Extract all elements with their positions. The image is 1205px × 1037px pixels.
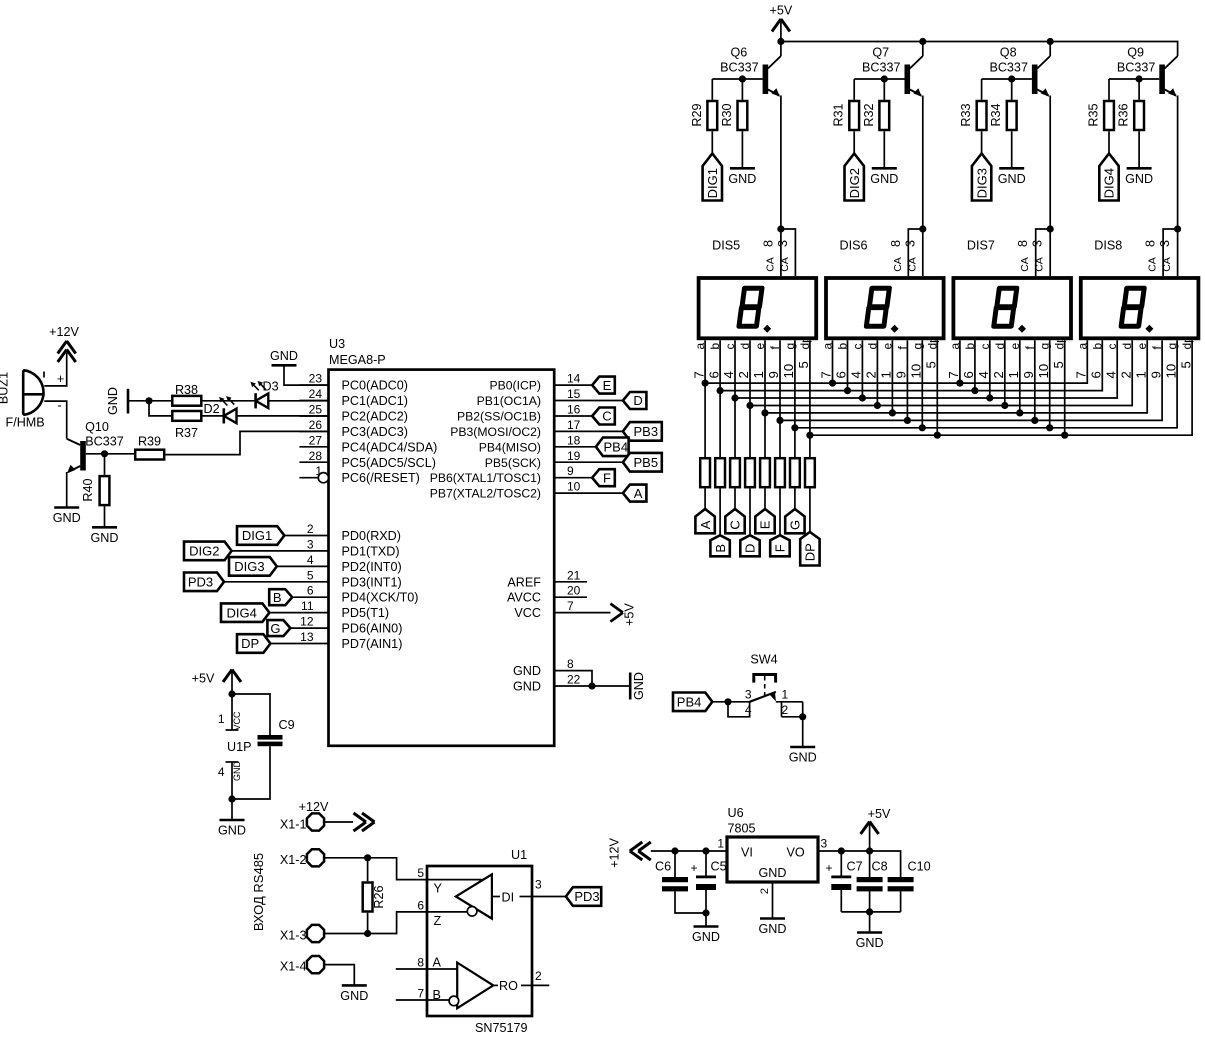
svg-text:7805: 7805: [728, 822, 756, 836]
svg-text:9: 9: [1148, 371, 1163, 378]
svg-text:CA: CA: [906, 257, 918, 272]
wire DIS7 pin drop seg a: [959, 340, 961, 383]
svg-text:GND: GND: [340, 989, 368, 1003]
svg-text:1: 1: [717, 837, 724, 851]
svg-text:X1-1: X1-1: [280, 818, 307, 832]
ground (Q10 emitter): [53, 508, 81, 526]
flag E (net E): [592, 377, 615, 394]
wire DIS6 pin drop seg g: [921, 340, 923, 428]
connector pad X1-3: [280, 925, 324, 943]
svg-text:C5: C5: [711, 860, 727, 874]
wire buzzer - to Q10 collector: [44, 401, 66, 439]
svg-text:15: 15: [567, 387, 581, 401]
svg-text:2: 2: [307, 522, 314, 536]
ground (X1-4): [340, 985, 368, 1003]
svg-text:24: 24: [309, 387, 323, 401]
wire Q7 collector to +5V rail: [922, 42, 924, 57]
svg-text:1: 1: [1006, 371, 1021, 378]
flag DP (net DP): [237, 634, 270, 653]
svg-text:3: 3: [903, 240, 917, 247]
junction VO/C7: [838, 847, 845, 854]
wire PD3 flag to U3 pin 5: [224, 581, 329, 583]
svg-text:CA: CA: [1161, 257, 1173, 272]
svg-text:13: 13: [300, 630, 314, 644]
pin 21 U3 (AREF stub): [554, 568, 587, 582]
flag E (segment net): [755, 509, 774, 533]
junction bus g / resistor column: [791, 424, 798, 431]
junction bus e / resistor column: [761, 409, 768, 416]
svg-text:A: A: [634, 486, 643, 501]
wire DIG1 flag to U3 pin 2: [284, 535, 328, 537]
junction +12V/C6: [671, 847, 678, 854]
capacitor C6: [655, 851, 688, 891]
wire R29 top lead: [711, 79, 713, 100]
svg-text:GND: GND: [632, 672, 646, 700]
wire resistor to F flag: [779, 489, 781, 536]
svg-text:GND: GND: [789, 751, 817, 765]
junction bus a / resistor column: [702, 380, 709, 387]
wire Q8 base: [982, 78, 1032, 80]
junction output caps ground: [866, 908, 873, 915]
resistor R37: [172, 411, 201, 440]
svg-text:PB4: PB4: [604, 440, 629, 455]
flag G (net G): [267, 620, 290, 636]
svg-text:G: G: [788, 520, 803, 530]
svg-text:DIG2: DIG2: [847, 168, 862, 198]
wire segment-f bus: [780, 340, 1162, 420]
transistor Q7 (BC337, NPN): [862, 46, 923, 97]
svg-text:DIG1: DIG1: [705, 168, 720, 198]
wire R30 top lead: [741, 79, 743, 100]
resistor R26 (termination): [363, 883, 386, 912]
wire Q6 base: [712, 78, 762, 80]
svg-text:DIG1: DIG1: [242, 528, 272, 543]
wire output caps ground bus: [841, 911, 900, 913]
flag G (segment net): [785, 509, 804, 533]
junction X1-3 / R26: [364, 930, 371, 937]
svg-text:2: 2: [782, 703, 789, 717]
wire DIS6 pin drop seg e: [891, 340, 893, 413]
svg-text:R36: R36: [1117, 103, 1131, 126]
flag D (net D): [623, 392, 647, 409]
svg-text:CA: CA: [764, 257, 776, 272]
capacitor C7 (polarized): [825, 851, 862, 912]
wire R32 top lead: [883, 79, 885, 100]
pin 8 U3 GND wire: [554, 657, 592, 686]
svg-text:9: 9: [894, 371, 909, 378]
pin 1 U3: [299, 464, 328, 483]
junction Q7 emitter / CA pins: [919, 225, 926, 232]
svg-text:DIG4: DIG4: [227, 605, 257, 620]
svg-text:1: 1: [879, 371, 894, 378]
svg-text:Q6: Q6: [730, 46, 747, 60]
svg-text:PB3(MOSI/OC2): PB3(MOSI/OC2): [450, 425, 541, 439]
wire U6 VO to output caps: [818, 851, 901, 877]
wire DIS7 pin drop seg c: [989, 340, 991, 398]
capacitor C5 (polarized): [690, 851, 726, 890]
flag PB4 (net PB4): [596, 438, 629, 457]
node +12V at X1-1: [354, 813, 375, 831]
junction bus f / DIS7: [1031, 417, 1038, 424]
wire Q9 base: [1109, 78, 1159, 80]
svg-text:MEGA8-P: MEGA8-P: [329, 353, 386, 367]
svg-text:5: 5: [1051, 361, 1066, 368]
wire segment-a bus: [705, 340, 1087, 383]
ground (Q8 base pulldown): [998, 168, 1026, 186]
svg-text:18: 18: [567, 433, 581, 447]
junction bus g / DIS7: [1046, 424, 1053, 431]
resistor R29: [690, 101, 717, 130]
wire R30 to ground: [741, 131, 743, 168]
svg-text:B: B: [273, 590, 282, 605]
svg-text:6: 6: [1089, 371, 1104, 378]
svg-text:+12V: +12V: [49, 325, 79, 339]
svg-text:VO: VO: [787, 846, 805, 860]
svg-text:RO: RO: [499, 979, 518, 993]
svg-text:PC6(/RESET): PC6(/RESET): [342, 471, 420, 485]
svg-text:U1P: U1P: [227, 740, 252, 754]
wire DP flag to U3 pin 13: [270, 643, 328, 645]
pin 2 U1 (RO stub): [532, 969, 549, 985]
node +5V (regulator output): [861, 807, 891, 851]
wire R32 to ground: [883, 131, 885, 168]
flag B (net B): [269, 589, 292, 605]
wire to ground: [869, 912, 871, 933]
wire Q6 emitter to DIS5 common anode: [780, 96, 782, 230]
wire U1P to ground: [231, 799, 233, 820]
flag DIG3 (net DIG3): [229, 557, 277, 576]
resistor (segment B current limit): [715, 458, 725, 487]
svg-text:7: 7: [417, 987, 424, 1001]
svg-text:PC3(ADC3): PC3(ADC3): [342, 425, 408, 439]
wire C6/C5 bottoms to ground: [675, 891, 706, 913]
wire DIS6 pin drop seg f: [906, 340, 908, 420]
flag DIG2 (digit drive net): [845, 154, 864, 201]
wire DIS5 pin drop seg f: [779, 340, 781, 420]
svg-text:10: 10: [1036, 364, 1051, 379]
junction +12V/C5: [702, 847, 709, 854]
svg-text:CA: CA: [892, 257, 904, 272]
wire R36 top lead: [1138, 79, 1140, 100]
wire R35 top lead: [1108, 79, 1110, 100]
svg-text:R35: R35: [1087, 103, 1101, 126]
wire resistor to C flag: [734, 489, 736, 510]
svg-text:2: 2: [736, 371, 751, 378]
svg-text:6: 6: [961, 371, 976, 378]
svg-text:26: 26: [309, 418, 323, 432]
resistor R32: [862, 101, 889, 130]
resistor R40: [81, 476, 109, 505]
svg-text:PC1(ADC1): PC1(ADC1): [342, 394, 408, 408]
resistor R31: [832, 101, 859, 130]
junction X1-2 / R26: [364, 854, 371, 861]
wire R33 top lead: [981, 79, 983, 100]
svg-text:14: 14: [567, 372, 581, 386]
svg-text:7: 7: [567, 599, 574, 613]
svg-text:D: D: [633, 393, 642, 408]
node +5V at VCC: [610, 603, 636, 626]
svg-text:11: 11: [301, 599, 314, 613]
junction bus c / DIS7: [986, 394, 993, 401]
svg-text:10: 10: [781, 364, 796, 379]
svg-text:3: 3: [1031, 240, 1045, 247]
wire bus to segment resistor 4: [749, 406, 751, 458]
capacitor C8: [857, 851, 888, 912]
svg-text:Q9: Q9: [1127, 46, 1144, 60]
svg-text:X1-3: X1-3: [280, 929, 307, 943]
wire R40 leads: [104, 454, 106, 475]
svg-text:DIS7: DIS7: [967, 239, 995, 253]
svg-text:R37: R37: [175, 426, 198, 440]
svg-text:23: 23: [309, 372, 323, 386]
ground (input caps): [692, 927, 720, 945]
junction PB4/SW4 pin4: [724, 698, 731, 705]
svg-text:BC337: BC337: [85, 435, 124, 449]
svg-text:VCC: VCC: [232, 711, 242, 731]
svg-text:21: 21: [567, 568, 581, 582]
svg-text:PD3: PD3: [574, 889, 599, 904]
wire SW4 to ground: [802, 717, 804, 747]
svg-text:PC4(ADC4/SDA): PC4(ADC4/SDA): [342, 440, 438, 454]
svg-text:+5V: +5V: [192, 672, 215, 686]
flag DIG1 (net DIG1): [237, 526, 284, 545]
svg-text:PD1(TXD): PD1(TXD): [342, 544, 400, 558]
flag DIG2 (net DIG2): [184, 542, 232, 561]
flag PB3 (net PB3): [623, 422, 662, 441]
svg-text:CA: CA: [779, 257, 791, 272]
pin 27 U3: [299, 433, 328, 447]
wire D2 anode to U3 pin 25 (PC2): [237, 415, 329, 417]
flag A (segment net): [695, 509, 714, 533]
svg-text:F/HMB: F/HMB: [6, 416, 45, 430]
svg-text:PB4(MISO): PB4(MISO): [479, 440, 541, 454]
seven-segment display DIS7: [946, 239, 1071, 379]
connector pad X1-1 (+12V input): [280, 800, 329, 832]
seven-segment display DIS6: [819, 239, 944, 379]
svg-text:5: 5: [796, 361, 811, 368]
svg-text:R31: R31: [832, 103, 846, 126]
wire R34 top lead: [1011, 79, 1013, 100]
junction bus c / DIS6: [859, 394, 866, 401]
svg-text:Q7: Q7: [872, 46, 889, 60]
svg-text:20: 20: [567, 584, 581, 598]
node +12V (regulator input): [608, 838, 651, 868]
wire U1 DI to PD3 flag: [532, 896, 566, 898]
wire bus to segment resistor 2: [719, 391, 721, 457]
wire SW4 pins 1/2 to ground: [776, 701, 803, 703]
svg-text:R32: R32: [862, 103, 876, 126]
resistor R30: [720, 101, 747, 130]
junction bus f / resistor column: [776, 417, 783, 424]
LED D3: [250, 380, 278, 409]
svg-text:8: 8: [1144, 240, 1158, 247]
svg-text:PD5(T1): PD5(T1): [342, 606, 390, 620]
wire U3 9 to F flag: [554, 477, 592, 479]
svg-text:6: 6: [834, 371, 849, 378]
svg-text:BC337: BC337: [720, 61, 759, 75]
wire Q10 base: [86, 453, 134, 455]
svg-text:DIS6: DIS6: [840, 239, 868, 253]
junction Q9 emitter / CA pins: [1174, 225, 1181, 232]
wire U3 14 to E flag: [554, 384, 592, 386]
svg-text:GND: GND: [232, 761, 242, 782]
wire resistor to A flag: [704, 489, 706, 510]
wire U6 GND to ground: [772, 882, 774, 919]
wire Q10 emitter to ground: [66, 472, 68, 508]
svg-text:2: 2: [991, 371, 1006, 378]
svg-text:GND: GND: [728, 172, 756, 186]
svg-text:PB3: PB3: [634, 424, 659, 439]
svg-text:PB2(SS/OC1B): PB2(SS/OC1B): [457, 410, 541, 424]
svg-text:BC337: BC337: [1117, 61, 1156, 75]
svg-text:4: 4: [307, 553, 314, 567]
wire Q7 emitter to DIS6 common anode: [922, 96, 924, 230]
junction bus b / DIS7: [971, 387, 978, 394]
wire ground to R38/R37: [128, 400, 171, 402]
wire X1-2 to U1 pin 5 (Y): [325, 858, 427, 880]
junction SW4 pin2/ground: [799, 713, 806, 720]
svg-text:PB1(OC1A): PB1(OC1A): [477, 394, 541, 408]
svg-text:8: 8: [417, 956, 424, 970]
flag DIG3 (digit drive net): [972, 154, 991, 201]
wire DIS7 pin drop seg dp: [1064, 340, 1066, 435]
svg-text:X1-4: X1-4: [280, 960, 307, 974]
wire U3 16 to C flag: [554, 415, 592, 417]
connector pad X1-4: [280, 956, 324, 974]
ground (PC0 input): [270, 349, 298, 365]
svg-text:25: 25: [309, 403, 323, 417]
svg-text:U3: U3: [329, 337, 345, 351]
svg-text:2: 2: [535, 969, 542, 983]
transistor Q9 (BC337, NPN): [1117, 46, 1178, 97]
wire C9 bottom to U1P GND: [232, 746, 270, 799]
svg-text:22: 22: [567, 673, 581, 687]
svg-text:D2: D2: [204, 402, 220, 416]
ground (SW4): [789, 747, 817, 765]
wire R31 to DIG2 flag: [853, 131, 855, 153]
resistor (segment E current limit): [760, 458, 770, 487]
junction Q8 base/R34: [1008, 75, 1015, 82]
wire resistor to B flag: [719, 489, 721, 536]
flag C (segment net): [725, 509, 744, 533]
resistor R34: [989, 101, 1016, 130]
svg-text:9: 9: [1021, 371, 1036, 378]
resistor (segment D current limit): [745, 458, 755, 487]
svg-text:9: 9: [567, 464, 574, 478]
wire segment-e bus: [765, 340, 1147, 413]
svg-text:C7: C7: [847, 860, 863, 874]
svg-text:GND: GND: [91, 531, 119, 545]
ground (U3 GND pins): [630, 672, 646, 700]
junction bus b / DIS6: [844, 387, 851, 394]
svg-text:PC0(ADC0): PC0(ADC0): [342, 379, 408, 393]
wire bus to segment resistor 3: [734, 398, 736, 457]
wire DIS6 pin drop seg d: [876, 340, 878, 405]
op-amp U1 RS485 transceiver SN75179: [427, 848, 532, 1035]
wire Q6 collector to +5V rail: [780, 42, 782, 57]
resistor (segment DP current limit): [805, 458, 815, 487]
svg-text:U1: U1: [511, 848, 527, 862]
svg-text:Q10: Q10: [85, 420, 109, 434]
svg-text:6: 6: [706, 371, 721, 378]
svg-text:3: 3: [1158, 240, 1172, 247]
svg-text:+: +: [57, 372, 64, 386]
pin 22 U3 GND wire: [554, 673, 630, 687]
svg-text:AREF: AREF: [507, 575, 541, 589]
svg-text:GND: GND: [1125, 172, 1153, 186]
svg-text:C6: C6: [655, 860, 671, 874]
junction U1P GND / C9: [228, 795, 235, 802]
svg-text:PB0(ICP): PB0(ICP): [490, 379, 541, 393]
wire buzzer + to +12V: [44, 353, 66, 386]
wire bus to segment resistor 6: [779, 420, 781, 457]
junction Q8 emitter / CA pins: [1047, 225, 1054, 232]
junction rail/Q6 collector: [777, 38, 784, 45]
svg-text:R39: R39: [138, 435, 161, 449]
wire segment-g bus: [795, 340, 1177, 428]
svg-text:DIG2: DIG2: [189, 544, 219, 559]
svg-text:3: 3: [535, 878, 542, 892]
svg-text:E: E: [603, 378, 612, 393]
wire R33 to DIG3 flag: [981, 131, 983, 153]
svg-text:3: 3: [776, 240, 790, 247]
ground (Q9 base pulldown): [1125, 168, 1153, 186]
svg-text:PD0(RXD): PD0(RXD): [342, 529, 401, 543]
wire R39 to U3 pin 26 (PC3): [166, 431, 329, 454]
wire resistor to DP flag: [809, 489, 811, 533]
wire segment-b bus: [720, 340, 1102, 390]
junction bus dp / DIS7: [1061, 432, 1068, 439]
resistor (segment G current limit): [790, 458, 800, 487]
junction Q7 base/R32: [881, 75, 888, 82]
svg-text:1: 1: [782, 687, 789, 701]
pin 28 U3: [299, 449, 328, 463]
svg-text:GND: GND: [53, 511, 81, 525]
junction bus d / DIS7: [1001, 402, 1008, 409]
svg-text:D: D: [743, 544, 758, 553]
wire CA pin jog DIS7: [1036, 229, 1051, 276]
flag DIG4 (net DIG4): [221, 603, 269, 622]
wire X1-1 to +12V: [325, 821, 353, 823]
svg-text:DIG4: DIG4: [1102, 168, 1117, 198]
wire X1-4 to ground: [325, 965, 355, 986]
svg-text:4: 4: [745, 703, 752, 717]
flag DP (segment net): [800, 532, 819, 566]
svg-text:+: +: [825, 861, 832, 875]
junction rail/Q8 collector: [1047, 38, 1054, 45]
svg-text:10: 10: [567, 480, 581, 494]
svg-text:G: G: [270, 621, 280, 636]
svg-text:4: 4: [218, 765, 225, 779]
switch SW4: [750, 653, 778, 702]
wire DIS5 pin drop seg dp: [809, 340, 811, 435]
wire R37 to D2 cathode: [203, 415, 224, 417]
svg-text:4: 4: [849, 371, 864, 378]
junction Q10 base/R40: [101, 450, 108, 457]
junction bus e / DIS7: [1016, 409, 1023, 416]
wire PB4 flag to SW4 pins 3/4: [712, 701, 749, 703]
svg-text:28: 28: [309, 449, 323, 463]
wire +5V to C9 top: [232, 694, 270, 735]
svg-text:C: C: [602, 409, 611, 424]
svg-text:1: 1: [218, 712, 225, 726]
pin 8 U1 (A stub): [396, 956, 427, 970]
ground (output caps): [856, 933, 884, 951]
ground (R40): [91, 527, 119, 545]
wire DIS7 pin drop seg f: [1034, 340, 1036, 420]
wire SW4 pin 4 loop: [728, 702, 750, 717]
wire B flag to U3 pin 6: [292, 596, 328, 598]
